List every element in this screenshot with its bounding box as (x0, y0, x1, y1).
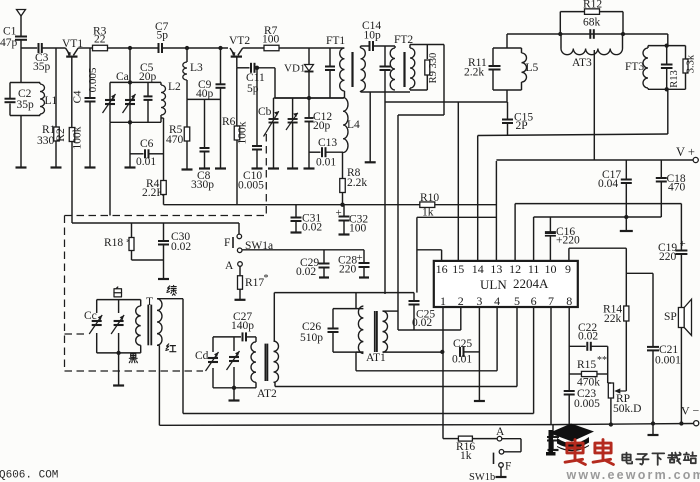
svg-text:20p: 20p (313, 120, 331, 132)
svg-text:2.2k: 2.2k (464, 67, 484, 79)
svg-text:1k: 1k (460, 450, 472, 462)
svg-text:www.eeworm.com: www.eeworm.com (566, 468, 700, 482)
svg-text:**: ** (597, 355, 607, 366)
svg-text:22: 22 (94, 34, 106, 46)
svg-text:Cb: Cb (258, 106, 272, 118)
svg-text:470: 470 (166, 134, 184, 146)
svg-text:R2: R2 (55, 128, 67, 142)
svg-text:Q606. COM: Q606. COM (0, 470, 58, 482)
svg-text:F: F (505, 461, 511, 473)
svg-text:+220: +220 (556, 235, 580, 247)
svg-text:0.02: 0.02 (302, 222, 322, 234)
svg-text:20p: 20p (139, 71, 157, 83)
svg-text:12: 12 (509, 262, 521, 276)
svg-text:L3: L3 (190, 62, 203, 74)
svg-text:AT3: AT3 (572, 57, 592, 69)
svg-text:220: 220 (339, 264, 357, 276)
svg-text:220: 220 (659, 251, 677, 263)
svg-text:R13: R13 (669, 70, 680, 88)
svg-text:330p: 330p (191, 179, 214, 191)
svg-text:L2: L2 (168, 81, 181, 93)
svg-text:140p: 140p (231, 320, 254, 332)
svg-text:0.02: 0.02 (171, 241, 191, 253)
svg-text:5p: 5p (157, 30, 169, 42)
svg-text:0.005: 0.005 (574, 398, 600, 410)
svg-text:0.02: 0.02 (578, 331, 598, 343)
svg-text:50k.D: 50k.D (613, 403, 641, 415)
svg-text:FT1: FT1 (326, 35, 345, 47)
svg-text:2.2k: 2.2k (347, 177, 367, 189)
svg-text:R15: R15 (577, 359, 596, 371)
svg-text:C1: C1 (3, 26, 17, 38)
svg-text:0.001: 0.001 (655, 355, 681, 367)
svg-text:100: 100 (349, 223, 367, 235)
svg-text:0.04: 0.04 (598, 178, 618, 190)
svg-text:100k: 100k (237, 121, 249, 144)
svg-text:510p: 510p (300, 332, 323, 344)
svg-text:R9 330: R9 330 (428, 53, 439, 84)
svg-text:40p: 40p (196, 88, 214, 100)
svg-text:Ca: Ca (116, 71, 129, 83)
svg-text:8: 8 (566, 294, 572, 308)
svg-text:L4: L4 (347, 119, 360, 131)
svg-text:100k: 100k (72, 126, 84, 149)
svg-text:0.02: 0.02 (412, 317, 432, 329)
svg-text:7: 7 (548, 294, 554, 308)
svg-text:16: 16 (436, 262, 448, 276)
svg-text:A: A (496, 426, 505, 438)
svg-text:0.005: 0.005 (87, 67, 99, 92)
svg-text:F: F (224, 237, 230, 249)
svg-text:35p: 35p (17, 99, 35, 111)
svg-text:L5: L5 (526, 62, 539, 74)
svg-text:VD1: VD1 (284, 63, 305, 75)
svg-text:5: 5 (514, 294, 520, 308)
svg-text:*: * (264, 273, 269, 284)
svg-text:+: + (680, 238, 686, 250)
svg-text:VT2: VT2 (229, 35, 250, 47)
svg-text:0.01: 0.01 (452, 354, 472, 366)
svg-text:0.01: 0.01 (136, 156, 156, 168)
svg-text:3.3k: 3.3k (686, 54, 697, 73)
svg-text:10: 10 (545, 262, 557, 276)
svg-text:A: A (225, 260, 234, 272)
svg-text:C13: C13 (318, 137, 337, 149)
svg-text:C4: C4 (72, 90, 84, 103)
svg-text:2: 2 (458, 294, 464, 308)
svg-text:68k: 68k (583, 17, 601, 29)
svg-text:6: 6 (531, 294, 537, 308)
svg-text:FT3: FT3 (625, 61, 644, 73)
svg-text:V −: V − (681, 404, 699, 418)
svg-text:100: 100 (262, 34, 280, 46)
svg-text:1: 1 (440, 294, 446, 308)
svg-text:C6: C6 (140, 138, 154, 150)
svg-text:13: 13 (490, 262, 502, 276)
svg-text:SP: SP (664, 311, 677, 323)
svg-text:10p: 10p (364, 30, 382, 42)
svg-text:14: 14 (472, 262, 484, 276)
svg-text:AT2: AT2 (257, 388, 277, 400)
svg-text:V +: V + (676, 145, 695, 159)
svg-text:3: 3 (476, 294, 482, 308)
svg-text:AT1: AT1 (366, 352, 386, 364)
svg-text:0.01: 0.01 (316, 157, 336, 169)
svg-text:470: 470 (668, 182, 686, 194)
svg-text:15: 15 (452, 262, 464, 276)
svg-text:T: T (146, 296, 153, 308)
svg-text:SW1b: SW1b (469, 472, 495, 482)
svg-text:0.005: 0.005 (238, 180, 264, 192)
svg-text:2P: 2P (516, 120, 528, 132)
svg-text:22k: 22k (604, 313, 622, 325)
svg-text:470k: 470k (577, 377, 600, 389)
svg-text:4: 4 (494, 294, 500, 308)
svg-text:330: 330 (37, 135, 55, 147)
svg-text:35p: 35p (33, 61, 51, 73)
svg-text:9: 9 (565, 262, 571, 276)
svg-text:2204A: 2204A (513, 276, 549, 291)
svg-text:47p: 47p (0, 37, 18, 49)
svg-text:R17: R17 (245, 277, 264, 289)
svg-text:Cd: Cd (195, 350, 209, 362)
svg-text:ULN: ULN (480, 277, 507, 292)
svg-text:11: 11 (528, 262, 540, 276)
svg-text:R18 *: R18 * (104, 237, 132, 249)
svg-text:0.02: 0.02 (296, 266, 316, 278)
